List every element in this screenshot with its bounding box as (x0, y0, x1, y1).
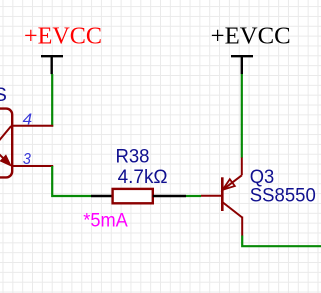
svg-text:*5mA: *5mA (83, 210, 128, 232)
svg-text:+EVCC: +EVCC (24, 24, 102, 50)
svg-text:S: S (0, 84, 7, 106)
phototransistor collector diagonal (0, 126, 11, 142)
svg-text:3: 3 (23, 151, 31, 168)
optocoupler U? body (0, 109, 12, 178)
phototransistor emitter diagonal with arrow (0, 150, 11, 166)
transistor Q3 base pin (201, 195, 221, 197)
svg-text:R38: R38 (116, 145, 150, 167)
pin 3 (12, 165, 53, 167)
transistor Q3 base bar (221, 177, 224, 211)
resistor R38 right lead (153, 195, 186, 197)
transistor Q3 emitter with arrow (223, 157, 242, 190)
wire Q3 collector output (242, 236, 321, 247)
wire power to pin4 (51, 74, 53, 127)
wire resistor to Q3 base (186, 195, 201, 197)
svg-text:4: 4 (23, 112, 33, 129)
power bar symbol left (41, 56, 63, 74)
pin 4 (12, 125, 53, 127)
wire power to Q3 emitter (241, 74, 243, 158)
wire pin3 to resistor (52, 166, 91, 196)
resistor R38 left lead (91, 195, 113, 197)
power bar symbol right (231, 56, 253, 74)
transistor Q3 collector (222, 202, 242, 236)
svg-text:SS8550: SS8550 (250, 185, 316, 207)
svg-text:4.7kΩ: 4.7kΩ (118, 166, 168, 188)
resistor R38 body (113, 189, 153, 203)
svg-text:+EVCC: +EVCC (211, 24, 291, 50)
